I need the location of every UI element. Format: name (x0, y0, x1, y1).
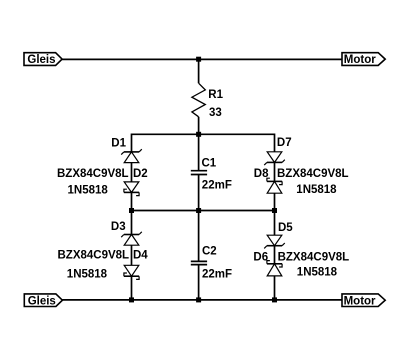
svg-text:1N5818: 1N5818 (296, 184, 337, 196)
zener diode D7 (264, 152, 285, 165)
junction bottom rail / C branch (196, 297, 201, 302)
wire D7 to D8 (274, 162, 276, 181)
svg-text:D5: D5 (278, 222, 293, 234)
junction mid rail / right branch (272, 208, 277, 213)
wire left branch top (131, 134, 133, 152)
svg-text:1N5818: 1N5818 (68, 184, 109, 196)
schottky diode D4 (124, 265, 139, 279)
junction bottom rail / right branch (272, 297, 277, 302)
svg-text:D2: D2 (133, 168, 148, 180)
wire right branch top (274, 134, 276, 152)
wire D4 to bottom rail (131, 276, 133, 300)
svg-text:33: 33 (209, 107, 222, 119)
resistor R1 (192, 83, 205, 117)
svg-text:Motor: Motor (344, 54, 376, 66)
wire D8 to mid rail (274, 193, 276, 210)
svg-text:Motor: Motor (344, 295, 376, 307)
capacitor C1 (191, 171, 207, 175)
svg-text:1N5818: 1N5818 (297, 266, 338, 278)
svg-text:22mF: 22mF (202, 180, 232, 192)
svg-text:D4: D4 (133, 249, 148, 261)
wire R1 bottom (198, 117, 200, 135)
net label Motor (bottom) (342, 294, 385, 307)
wire D6 to bottom rail (274, 276, 276, 300)
wire D2 to mid rail (131, 192, 133, 210)
junction mid rail / left branch (129, 208, 134, 213)
zener diode D5 (264, 235, 285, 248)
svg-text:D1: D1 (111, 137, 126, 149)
svg-text:C1: C1 (202, 157, 217, 169)
wire right branch lower (274, 211, 276, 236)
zener diode D3 (121, 232, 142, 245)
net label Gleis (top) (24, 53, 62, 66)
wire R1 top (198, 59, 200, 83)
svg-text:Gleis: Gleis (28, 295, 56, 307)
wire C2 top (198, 211, 200, 262)
svg-text:Gleis: Gleis (27, 54, 55, 66)
schottky diode D2 (124, 182, 139, 196)
wire bottom rail (62, 299, 342, 301)
svg-text:C2: C2 (202, 246, 217, 258)
schottky diode D6 (267, 261, 282, 276)
wire C2 bottom (198, 265, 200, 300)
svg-text:D3: D3 (111, 221, 126, 233)
capacitor C2 (191, 261, 207, 264)
svg-text:D6: D6 (253, 251, 268, 263)
svg-text:BZX84C9V8L: BZX84C9V8L (58, 249, 130, 261)
svg-text:D7: D7 (277, 137, 292, 149)
svg-text:1N5818: 1N5818 (67, 268, 108, 280)
wire D1 to D2 (131, 163, 133, 182)
wire C1 top (198, 134, 200, 170)
net label Motor (top) (342, 53, 385, 66)
schottky diode D8 (267, 178, 282, 193)
svg-text:R1: R1 (208, 89, 223, 101)
junction rail1 / R1 (196, 132, 201, 137)
wire C1 bottom (198, 175, 200, 211)
wire rail node1 (132, 133, 275, 135)
junction mid rail / C branch (196, 208, 201, 213)
wire D5 to D6 (274, 246, 276, 264)
zener diode D1 (121, 149, 142, 162)
svg-text:BZX84C9V8L: BZX84C9V8L (277, 168, 349, 180)
wire D3 to D4 (131, 245, 133, 265)
svg-text:BZX84C9V8L: BZX84C9V8L (57, 168, 129, 180)
svg-text:22mF: 22mF (202, 268, 232, 280)
wire left branch lower (131, 211, 133, 235)
junction top rail / R1 (196, 57, 201, 62)
wire mid rail (132, 210, 275, 212)
svg-text:BZX84C9V8L: BZX84C9V8L (278, 251, 350, 263)
junction bottom rail / left branch (129, 297, 134, 302)
wire top rail (62, 58, 342, 60)
net label Gleis (bottom) (24, 294, 62, 307)
